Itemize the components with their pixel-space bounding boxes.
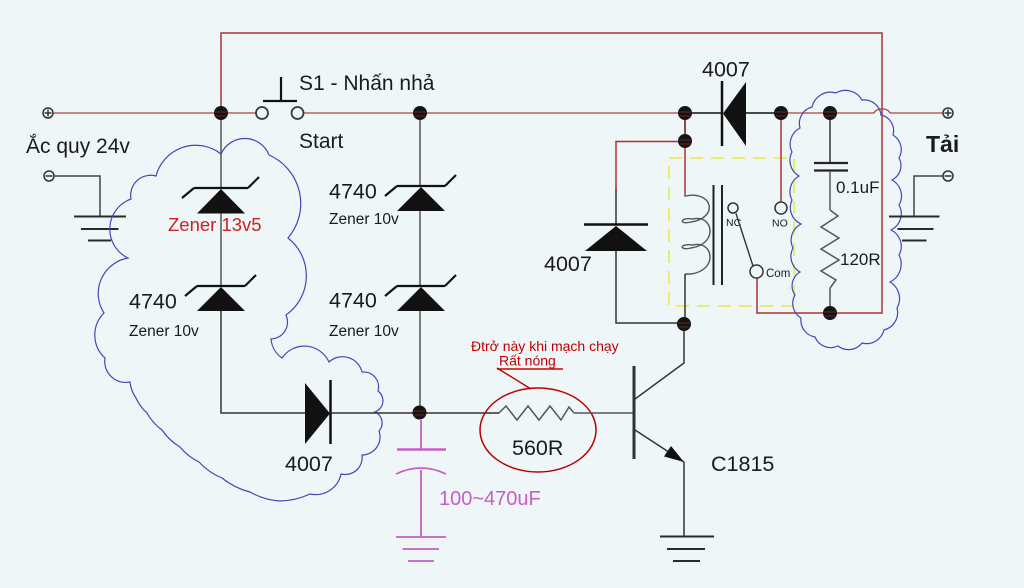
ground emitter bbox=[660, 537, 714, 562]
wire battery minus to ground bbox=[54, 176, 100, 216]
resistor R1 560R bbox=[499, 406, 574, 420]
node H junction dot bbox=[413, 406, 427, 420]
node E junction dot bbox=[774, 106, 788, 120]
ground load bbox=[889, 217, 940, 241]
wire red bus left segment bbox=[53, 112, 256, 114]
svg-text:Zener 10v: Zener 10v bbox=[329, 211, 399, 228]
transistor Q1 C1815 bbox=[634, 331, 684, 462]
wire emitter down bbox=[683, 462, 685, 536]
wire right column bottom bbox=[419, 311, 421, 407]
wire black through top diode bbox=[685, 112, 781, 114]
svg-text:560R: 560R bbox=[512, 436, 563, 460]
switch S1 actuator bbox=[263, 77, 297, 101]
relay box yellow dashed bbox=[669, 158, 794, 306]
diode D1 4007 bottom left bbox=[305, 380, 331, 444]
wire resistor to base bbox=[574, 412, 633, 414]
wire red bus right segment bbox=[787, 109, 943, 113]
svg-text:4740: 4740 bbox=[329, 180, 377, 204]
wire left column bottom to corner bbox=[221, 311, 305, 413]
svg-text:Start: Start bbox=[299, 130, 344, 153]
wire coil bottom bbox=[684, 274, 686, 317]
node G junction dot bbox=[823, 306, 837, 320]
annotation leader line bbox=[497, 368, 531, 389]
wire red from node B to diode branch bbox=[616, 142, 679, 190]
wire red to relay coil bbox=[684, 148, 686, 193]
switch S1 contact right bbox=[292, 107, 304, 119]
annotation ellipse around 560R bbox=[480, 388, 596, 472]
cloud around snubber bbox=[790, 90, 902, 349]
capacitor C2 0.1uF bbox=[814, 163, 848, 171]
ground magenta bbox=[396, 537, 446, 561]
wire to snubber cap bbox=[829, 120, 831, 163]
annotation underline bbox=[497, 368, 563, 370]
svg-text:Zener 10v: Zener 10v bbox=[129, 323, 199, 340]
svg-text:C1815: C1815 bbox=[711, 452, 774, 476]
svg-text:4007: 4007 bbox=[285, 452, 333, 476]
wire between node C and D bbox=[684, 120, 686, 134]
svg-text:Rất nóng: Rất nóng bbox=[499, 353, 556, 369]
battery minus terminal bbox=[44, 171, 54, 181]
svg-text:Zener 13v5: Zener 13v5 bbox=[168, 214, 262, 235]
zener diode Z1 13v5 bbox=[182, 177, 259, 214]
node C junction dot bbox=[678, 106, 692, 120]
zener diode Z2 4740 left bbox=[185, 275, 256, 311]
wire left column top bbox=[220, 120, 222, 188]
switch S1 contact left bbox=[256, 107, 268, 119]
wire right zener column top bbox=[419, 120, 421, 186]
diode D2 4007 freewheel bbox=[584, 225, 648, 252]
wire red right side with hop bbox=[757, 107, 882, 313]
svg-text:S1 - Nhấn nhả: S1 - Nhấn nhả bbox=[299, 72, 435, 95]
wire cap to resistor bbox=[829, 171, 831, 210]
wire red bus middle segment bbox=[304, 112, 679, 114]
capacitor C1 electrolytic magenta bbox=[396, 420, 446, 536]
relay coil K1 bbox=[682, 193, 710, 274]
zener diode Z3 4740 top bbox=[385, 175, 456, 211]
ground battery bbox=[74, 217, 126, 241]
relay contact NO bbox=[775, 202, 787, 214]
wire diode branch lower bbox=[616, 251, 678, 323]
wire base row bbox=[331, 412, 500, 414]
diode D3 4007 top bbox=[722, 81, 746, 146]
wire right column middle bbox=[419, 211, 421, 286]
relay contact Com bbox=[750, 265, 763, 278]
wire diode branch upper bbox=[615, 189, 617, 224]
svg-text:NO: NO bbox=[772, 218, 788, 230]
wire red NO up bbox=[780, 120, 782, 202]
wire left column middle bbox=[220, 214, 222, 287]
node D junction dot bbox=[678, 134, 692, 148]
wire resistor down to node bbox=[829, 288, 831, 308]
svg-text:4007: 4007 bbox=[544, 252, 592, 276]
battery plus terminal bbox=[43, 108, 53, 118]
svg-text:100~470uF: 100~470uF bbox=[439, 488, 541, 510]
relay core bbox=[714, 185, 723, 285]
svg-text:0.1uF: 0.1uF bbox=[836, 178, 879, 197]
svg-text:Tải: Tải bbox=[926, 131, 959, 157]
node I junction dot bbox=[677, 317, 691, 331]
svg-text:Zener 10v: Zener 10v bbox=[329, 323, 399, 340]
node F junction dot bbox=[823, 106, 837, 120]
svg-text:4740: 4740 bbox=[129, 290, 177, 314]
cloud around left zener chain bbox=[95, 138, 383, 501]
load minus terminal bbox=[943, 171, 953, 181]
zener diode Z4 4740 bottom bbox=[385, 275, 456, 311]
wire load minus to ground bbox=[914, 176, 943, 216]
relay armature bbox=[736, 214, 753, 267]
svg-text:120R: 120R bbox=[840, 250, 881, 269]
resistor R2 120R bbox=[821, 210, 839, 288]
svg-text:4740: 4740 bbox=[329, 289, 377, 313]
svg-text:4007: 4007 bbox=[702, 58, 750, 82]
node B junction dot bbox=[413, 106, 427, 120]
relay contact NC bbox=[728, 203, 738, 213]
node A junction dot bbox=[214, 106, 228, 120]
wire red top loop bbox=[221, 33, 882, 107]
svg-text:Ắc quy 24v: Ắc quy 24v bbox=[26, 134, 130, 158]
load plus terminal bbox=[943, 108, 953, 118]
svg-text:Com: Com bbox=[766, 268, 790, 280]
